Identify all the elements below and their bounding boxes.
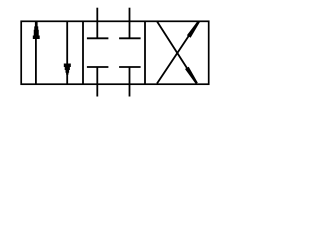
crossed flow line down-right (position 3) [157,21,196,82]
down arrowhead [64,64,71,75]
top port stub B [129,8,131,39]
top port stub A [96,8,98,39]
crossed flow arrowhead up-right [187,21,200,38]
down arrow shaft (position 1) [66,22,68,84]
crossed flow arrowhead down-right [185,67,198,84]
blocked port bar top A [87,37,109,39]
up arrowhead [33,21,40,39]
crossed flow line up-right (position 3) [157,22,198,84]
up arrow shaft (position 1) [35,22,37,84]
bottom port stub P [96,67,98,97]
4/3-way directional control valve symbol [0,0,229,104]
divider between position 1 and 2 [82,21,84,84]
blocked port bar top B [119,37,141,39]
bottom port stub T [129,67,131,97]
blocked port bar bottom T [119,66,141,68]
valve body outline [21,21,209,84]
divider between position 2 and 3 [144,21,146,84]
blocked port bar bottom P [87,66,109,68]
